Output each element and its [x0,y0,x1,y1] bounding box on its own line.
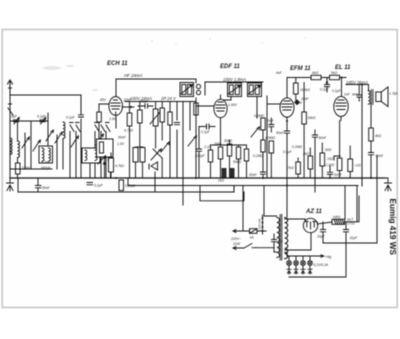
svg-text:70nF: 70nF [266,119,275,123]
wire comb v7 [182,102,184,206]
svg-text:10Ω: 10Ω [327,157,334,161]
svg-text:0,1MΩ: 0,1MΩ [253,154,264,158]
resistor comb r5 [168,112,172,125]
resistor 30k efm [302,112,307,124]
capacitor 10nF diamond [295,100,300,105]
IF transformer 1 [180,83,194,97]
osc coil a [100,142,104,153]
trimmer arrow m2 [188,136,197,146]
ground right [385,178,392,191]
svg-text:2kΩ: 2kΩ [217,179,224,183]
wire efm v315 [314,142,316,192]
pot arrow comb [150,112,161,124]
wire x25 [24,133,26,169]
resistor edf r6 [261,118,265,130]
node efm rail [326,81,328,83]
wire EFM drop [286,78,288,99]
resistor edf r3 [227,144,231,156]
capacitor 1nF [357,85,361,102]
wire transformer top [362,85,369,92]
trimmer arrow T3 [55,132,62,143]
svg-text:100pF: 100pF [139,100,150,104]
svg-text:EL 11: EL 11 [335,65,351,71]
resistor osc grid [97,112,102,122]
wire transformer bottom col [370,104,372,128]
wire pair legs [136,162,143,178]
lamp 4 [308,256,313,265]
wire L1 bottom [9,152,11,169]
resistor osc cathode [109,158,114,172]
svg-text:10nF: 10nF [301,97,310,101]
wire 1,2k right [349,146,351,178]
wire 100k efm [295,78,297,101]
svg-text:50nF: 50nF [334,173,343,177]
IF transformer 3 [248,83,262,97]
resistor 50 ohm [337,158,342,171]
wire L2 bottom [17,158,19,178]
node plate [130,106,132,108]
mains arrow N [233,247,244,250]
band filter arrow [84,150,96,161]
capacitor 220pF [197,149,202,178]
resistor 4,5M [269,141,274,153]
resistor 0,1M c [320,153,325,166]
wire comb v6 [176,102,178,179]
svg-text:AZ 11: AZ 11 [305,209,323,215]
osc coil pair box [39,146,53,163]
svg-text:50kΩ: 50kΩ [233,160,241,164]
resistor 0,2M [119,180,124,191]
wire hv top to plate [285,219,305,222]
wire x48 [47,113,49,145]
capacitor 100pF [138,104,153,108]
wire tube cathode down [115,115,117,128]
svg-text:+Ng: +Ng [325,255,331,259]
wire el cathode [334,121,340,179]
capacitor 0,1uF lower [87,183,93,185]
wire 7k down [297,158,299,178]
resistor edf r7 [261,140,265,152]
phone jack [149,162,158,170]
svg-text:L.Spr: L.Spr [390,92,399,96]
svg-text:4,7kΩ: 4,7kΩ [115,164,124,168]
svg-text:50nF: 50nF [249,173,258,177]
svg-text:220 240: 220 240 [258,218,262,230]
svg-text:≈2Ω: ≈2Ω [355,164,362,168]
wire psu feed b [263,186,265,216]
oscillator coil box [97,139,114,157]
wire x31 [30,121,32,169]
svg-text:220pF: 220pF [194,154,206,158]
wire comb v4b [161,158,163,178]
ground left [7,178,14,191]
power transformer primary [277,217,280,257]
svg-text:1A: 1A [250,236,255,240]
svg-text:0,1μF: 0,1μF [201,130,211,134]
wire EDF can to tube [221,97,232,101]
wire grid coupling vertical [80,95,82,152]
wire edf r67 [262,130,264,172]
trimcap 51pF [40,117,46,124]
wire edf r bottoms [211,140,247,178]
svg-text:0,1μF: 0,1μF [66,116,76,120]
tube EFM11 [280,98,294,121]
wire nested return a [200,186,244,201]
mains arrow L [233,230,240,233]
electrolytic blob a [222,168,227,178]
wire psu feed c [286,186,288,218]
svg-text:4kΩ: 4kΩ [375,134,382,138]
wire choke out [345,221,359,223]
trimmer arrow m1 [161,142,170,152]
resistor 7k [296,162,301,174]
lamp 2 [294,256,299,265]
svg-text:100kΩ: 100kΩ [300,88,310,92]
antenna [8,80,13,95]
svg-text:0,1MΩ: 0,1MΩ [254,114,265,118]
resistor pair a [133,148,138,163]
resistor 1,2k right [348,159,353,172]
bus2 y192 [18,186,234,193]
capacitor 0,1uF coupling [79,115,84,117]
resistor edf r2 [218,147,222,159]
pickup jack circles [196,84,200,94]
svg-text:50nF: 50nF [276,131,285,135]
gang arrow a [71,136,78,147]
svg-text:1,95V: 1,95V [228,103,238,107]
svg-text:Eumig 419 WS: Eumig 419 WS [388,199,397,256]
wire EL grid drop [341,78,343,97]
resistor 100k [16,163,21,174]
svg-text:93V: 93V [296,101,303,105]
gang arrow b [96,134,103,145]
wire IF1 down [195,98,197,178]
wire psu feed a [242,186,244,232]
svg-text:5pF: 5pF [11,115,18,119]
svg-text:50Ω: 50Ω [325,148,332,152]
capacitor 50nF efm b [312,130,317,142]
wire left cap rail [10,120,48,122]
coil L4 [49,148,51,161]
wire hv bottom to plate [285,232,311,251]
trimmer arrow edf [251,127,260,137]
wire EDF grid left [196,105,214,107]
svg-text:EDF 11: EDF 11 [220,64,241,70]
resistor pair b [140,148,145,163]
wire lamp return [289,243,346,277]
rectifier AZ11 [303,218,317,232]
trimmer arrow T1 [22,137,29,148]
wire 0,1M c [321,143,323,178]
band filter box [82,148,100,163]
tube EDF11 [214,95,227,122]
wire comb v2 [139,102,141,148]
capacitor 70nF [269,118,274,132]
svg-text:4nF: 4nF [276,71,283,75]
capacitor 50nF edf [199,124,215,129]
trimmer arrow T2 [33,140,40,151]
band switch contacts [70,123,111,132]
svg-text:50nF: 50nF [319,136,328,140]
wire heater line [285,252,320,256]
svg-text:4,2nF: 4,2nF [41,161,51,165]
capacitor 32uF [343,222,348,243]
resistor 2k psu [308,156,313,169]
svg-text:4,5MΩ: 4,5MΩ [265,136,276,140]
svg-text:50nF: 50nF [42,186,51,190]
wire tube ECH top [115,79,117,97]
wire bus2 head [17,178,19,192]
wire 4k down [370,141,372,152]
wire cap down right col [370,155,372,178]
svg-text:50nF: 50nF [118,136,127,140]
svg-text:1nF: 1nF [344,93,351,97]
wire efm grid [267,103,280,105]
wire edf v1 [198,127,200,150]
capacitor 50nF bus b [327,166,332,178]
svg-text:4kΩ: 4kΩ [312,71,319,75]
wire L5 [62,139,64,169]
svg-text:2P 24 V: 2P 24 V [160,96,177,101]
capacitor 2uF [272,234,277,248]
resistor if leg [194,103,198,115]
wire az out [317,222,332,224]
capacitor 16uF [320,222,325,243]
choke field coil [332,219,345,224]
trimcap 5pF [14,117,20,124]
switch antenna [8,104,13,115]
capacitor 50nF right [368,153,373,155]
band filter coil a [85,150,87,161]
resistor 100k efm [294,83,299,94]
resistor comb r4 [160,108,164,122]
fuse 1A [250,229,258,234]
wire comb v5b [169,125,171,178]
trimmer arrow T4 [46,130,53,141]
tuning gang stator [70,132,106,156]
wire EDF rail drop left [204,82,206,95]
power transformer core [280,215,282,261]
wire plate right [122,106,134,108]
wire L2 top [17,121,19,141]
wire EFM plate rail [287,77,346,79]
wire comb v5 [169,102,171,113]
svg-text:2,1n: 2,1n [203,145,211,149]
svg-text:30kΩ: 30kΩ [308,116,316,120]
wire comb v8 [189,102,191,131]
wire choke feed [344,186,346,220]
osc trimmer arrow [98,156,106,164]
svg-text:HF 24mA: HF 24mA [124,73,143,78]
pair bar [136,146,144,148]
capacitor comb c1 [175,123,180,125]
svg-text:100V 1,8mA: 100V 1,8mA [223,77,246,82]
wire edf tube down [220,122,222,145]
svg-text:85V: 85V [100,98,107,102]
coil L1 antenna [10,138,12,155]
bus chassis y178 [10,177,385,179]
output transformer primary [368,90,373,105]
smudge marks [43,37,306,91]
switch mains [244,244,256,249]
resistor comb r2 [138,110,143,123]
wire osc left [99,104,109,140]
trimmer X cluster [151,149,162,160]
svg-text:4,7kΩ: 4,7kΩ [124,129,133,133]
bus heater y186 [128,179,358,186]
voltage selector [262,215,277,234]
wire comb v1 [129,102,131,179]
svg-text:50kΩ: 50kΩ [224,139,232,143]
arrow Ng [320,255,324,257]
wire EDF rail [205,81,263,83]
resistor osc lower [108,150,112,161]
wire top horizontal to band rail [10,95,81,112]
coil L3 [42,148,44,161]
capacitor 50nF bus a [260,172,265,178]
svg-text:0,1μF: 0,1μF [332,89,342,93]
svg-text:5,1pF: 5,1pF [37,115,47,119]
svg-text:mAst: mAst [333,215,340,219]
svg-text:0,1μF: 0,1μF [320,88,330,92]
capacitor 50nF left [36,178,42,192]
svg-text:660pF: 660pF [41,166,52,170]
svg-text:1,9V: 1,9V [117,142,125,146]
coil L2 [18,141,20,158]
svg-text:1,2kΩ: 1,2kΩ [326,163,335,167]
coil L5 right [63,122,65,139]
tube ECH11 [109,97,123,116]
resistor edf r5 [244,149,248,161]
wire cap16 top [317,221,332,223]
wire psu gnd rail [323,242,377,244]
wire HF rail [116,79,196,83]
wire antenna down [9,95,11,178]
wire switch to primary [256,248,277,252]
wire 100V rail [125,101,196,103]
band filter coil b [95,150,97,161]
resistor comb r3 pot [153,109,158,126]
tube EL11 [334,97,348,121]
speaker [376,87,388,107]
power transformer secondary [285,218,288,259]
resistor 4k horiz [311,75,321,79]
wire gang legs [70,145,106,178]
lamp 1 [287,256,292,265]
svg-text:4nF: 4nF [352,93,359,97]
wire 4,5M down [270,153,272,178]
wire osc box down [105,153,112,178]
wire heater drop a [361,178,363,186]
electrolytic blob b [230,168,235,178]
node dots bus [115,77,372,187]
wire comb v4 [161,102,163,141]
wire right col b [376,156,378,243]
wire fuse to taps [240,230,266,232]
resistor 4k right [369,128,374,141]
IF transformer 2 [228,83,242,97]
lamp 3 [301,256,306,265]
wire can3 down [256,97,258,119]
wire 2k psu [309,148,311,178]
wire efm left col [266,96,268,178]
resistor 5k horiz [330,75,340,79]
wire x57 [56,135,58,169]
capacitor 0,1uF efm [324,78,329,93]
svg-text:7kΩ: 7kΩ [288,166,295,170]
svg-text:0,1μF: 0,1μF [94,184,104,188]
svg-text:220V~: 220V~ [230,237,241,241]
wire osc lower [110,142,112,178]
resistor edf r4 [236,147,240,159]
svg-text:5kΩ: 5kΩ [331,71,338,75]
capacitor 50nF efm tube [284,121,289,192]
svg-text:31W: 31W [233,242,241,246]
wire comb v3 [155,102,157,149]
wire bottom link [10,168,52,170]
wire filter to bus [89,163,91,178]
wire 30k efm [303,83,305,179]
svg-text:16μF: 16μF [317,235,326,239]
wire screen rail [346,85,362,187]
svg-text:ECH 11: ECH 11 [107,61,128,67]
lamp grounds [287,265,312,274]
resistor edf r1 [208,150,212,162]
svg-text:0,5μF: 0,5μF [283,150,293,154]
svg-text:6,2V/0,1A: 6,2V/0,1A [314,263,329,267]
svg-text:EFM 11: EFM 11 [290,66,311,72]
svg-text:2kΩ: 2kΩ [302,152,310,156]
wire comb v3c [154,172,156,192]
svg-text:0,2MΩ: 0,2MΩ [125,184,136,188]
node osc [103,162,106,165]
svg-text:0,1MΩ: 0,1MΩ [292,145,303,149]
svg-text:32μF: 32μF [350,236,359,240]
wire b+ risers [357,186,359,222]
resistor comb r1 [127,113,132,126]
